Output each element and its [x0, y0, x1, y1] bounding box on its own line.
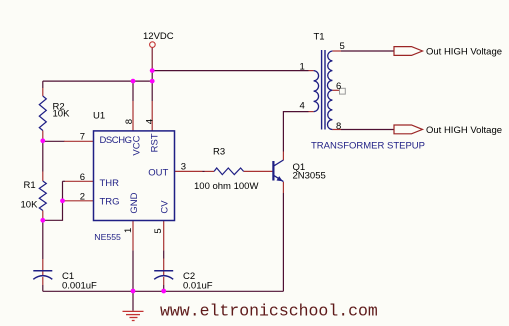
svg-text:100 ohm 100W: 100 ohm 100W [194, 181, 258, 192]
svg-text:1: 1 [123, 228, 134, 233]
svg-text:0.001uF: 0.001uF [62, 280, 97, 291]
svg-text:4: 4 [144, 119, 155, 124]
svg-text:2N3055: 2N3055 [293, 171, 326, 182]
svg-text:6: 6 [336, 81, 341, 92]
svg-text:1: 1 [300, 62, 305, 73]
svg-text:NE555: NE555 [94, 232, 121, 242]
svg-text:THR: THR [100, 178, 120, 189]
svg-text:5: 5 [340, 41, 345, 52]
svg-text:12VDC: 12VDC [143, 31, 174, 42]
svg-text:www.eltronicschool.com: www.eltronicschool.com [160, 301, 378, 320]
svg-text:OUT: OUT [148, 167, 168, 178]
svg-text:10K: 10K [21, 200, 39, 211]
svg-text:5: 5 [153, 228, 164, 233]
svg-text:TRG: TRG [100, 196, 120, 207]
svg-text:TRANSFORMER STEPUP: TRANSFORMER STEPUP [311, 141, 425, 152]
svg-text:R1: R1 [24, 180, 36, 191]
svg-text:VCC: VCC [132, 135, 143, 155]
svg-text:T1: T1 [314, 31, 325, 42]
svg-text:7: 7 [80, 132, 85, 143]
svg-text:8: 8 [124, 119, 135, 124]
svg-text:U1: U1 [93, 111, 105, 122]
svg-text:3: 3 [181, 162, 186, 173]
svg-text:6: 6 [80, 172, 85, 183]
svg-text:0.01uF: 0.01uF [183, 280, 213, 291]
svg-text:4: 4 [300, 101, 305, 112]
svg-text:Out HIGH Voltage: Out HIGH Voltage [426, 46, 502, 57]
svg-text:2: 2 [80, 191, 85, 202]
svg-text:Out HIGH Voltage: Out HIGH Voltage [426, 125, 502, 136]
svg-text:10K: 10K [53, 108, 71, 119]
svg-text:R3: R3 [213, 147, 225, 158]
svg-text:8: 8 [336, 121, 341, 132]
svg-text:RST: RST [149, 133, 160, 152]
svg-text:CV: CV [160, 200, 171, 214]
svg-text:DSCHG: DSCHG [100, 135, 132, 146]
svg-text:GND: GND [129, 192, 140, 213]
